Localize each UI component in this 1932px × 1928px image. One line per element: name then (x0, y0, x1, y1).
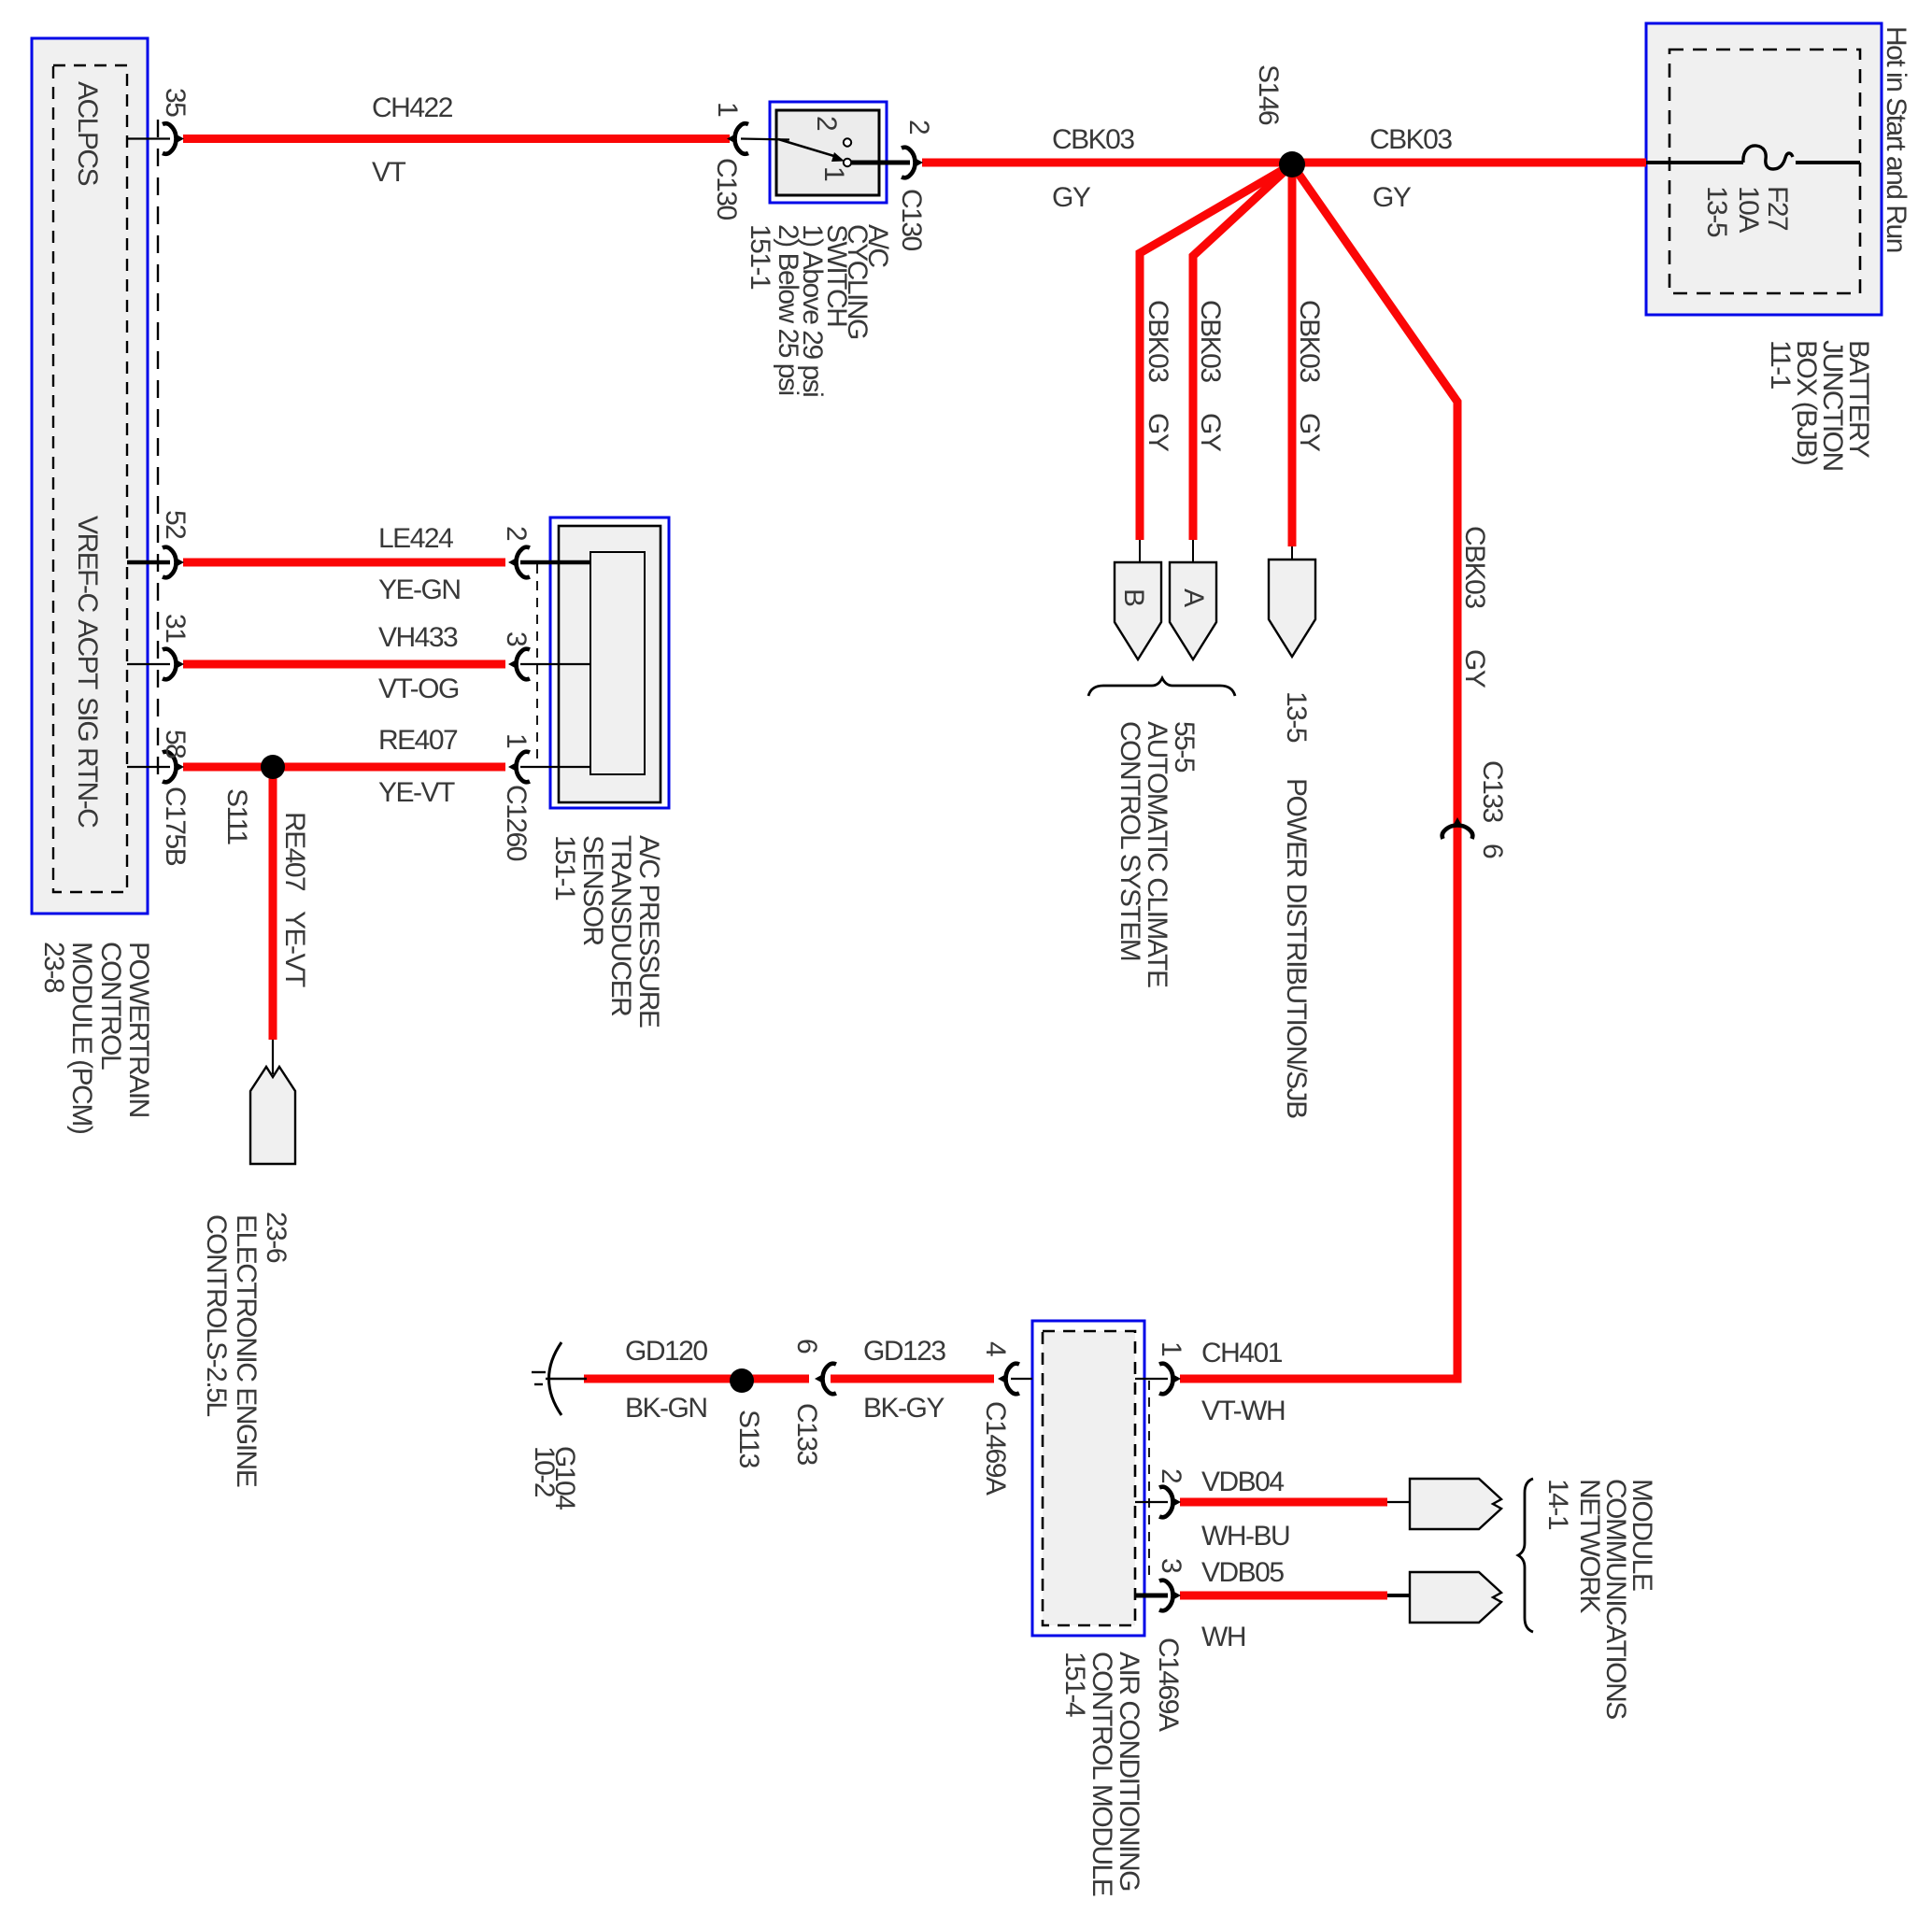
svg-text:YE-VT: YE-VT (279, 911, 310, 987)
svg-text:6: 6 (1477, 843, 1508, 858)
svg-text:VREF-C: VREF-C (72, 516, 103, 613)
svg-text:MODULE (PCM): MODULE (PCM) (66, 942, 97, 1134)
svg-text:C133: C133 (1477, 760, 1508, 823)
svg-text:CBK03: CBK03 (1143, 300, 1173, 382)
svg-text:CBK03: CBK03 (1195, 300, 1226, 382)
svg-text:23-6: 23-6 (261, 1212, 291, 1263)
svg-text:10A: 10A (1733, 186, 1764, 233)
svg-text:31: 31 (160, 614, 191, 643)
svg-text:2: 2 (501, 526, 532, 541)
svg-text:CONTROL SYSTEM: CONTROL SYSTEM (1115, 721, 1145, 960)
svg-text:151-1: 151-1 (745, 224, 775, 290)
svg-text:C175B: C175B (160, 787, 191, 866)
svg-text:BK-GN: BK-GN (625, 1393, 707, 1424)
svg-text:13-5: 13-5 (1281, 691, 1312, 743)
svg-text:CH422: CH422 (372, 92, 453, 123)
svg-text:3: 3 (1156, 1558, 1186, 1573)
svg-text:GY: GY (1372, 182, 1412, 213)
svg-text:CBK03: CBK03 (1370, 124, 1452, 155)
svg-text:LE424: LE424 (378, 523, 453, 554)
svg-text:C1260: C1260 (501, 785, 532, 861)
svg-text:B: B (1118, 588, 1149, 606)
svg-text:1: 1 (501, 733, 532, 748)
svg-text:GD120: GD120 (625, 1336, 707, 1367)
svg-text:Hot in Start and Run: Hot in Start and Run (1881, 26, 1911, 252)
svg-text:4: 4 (980, 1341, 1011, 1356)
svg-text:GY: GY (1459, 649, 1490, 688)
svg-text:CH401: CH401 (1201, 1338, 1283, 1368)
svg-text:RE407: RE407 (378, 725, 458, 756)
svg-text:3: 3 (501, 631, 532, 646)
svg-text:VT-OG: VT-OG (378, 673, 459, 704)
svg-text:YE-GN: YE-GN (378, 574, 461, 605)
svg-text:23-8: 23-8 (38, 942, 69, 993)
svg-text:WH-BU: WH-BU (1201, 1521, 1289, 1552)
svg-text:VDB05: VDB05 (1201, 1557, 1284, 1588)
svg-text:C1469A: C1469A (1153, 1637, 1184, 1732)
svg-text:GY: GY (1294, 413, 1325, 452)
svg-text:GD123: GD123 (863, 1336, 945, 1367)
svg-text:1: 1 (712, 102, 743, 117)
svg-text:NETWORK: NETWORK (1574, 1479, 1605, 1613)
svg-text:58: 58 (160, 730, 191, 758)
svg-text:RE407: RE407 (279, 812, 310, 891)
svg-text:C130: C130 (896, 189, 927, 251)
svg-text:SENSOR: SENSOR (577, 835, 608, 946)
svg-text:GY: GY (1052, 182, 1091, 213)
svg-text:F27: F27 (1762, 186, 1793, 231)
svg-text:6: 6 (791, 1339, 822, 1354)
svg-text:A: A (1178, 588, 1209, 607)
svg-text:2: 2 (903, 120, 934, 135)
svg-text:VT-WH: VT-WH (1201, 1396, 1285, 1426)
svg-text:S111: S111 (221, 788, 252, 844)
svg-text:YE-VT: YE-VT (378, 777, 455, 808)
svg-text:WH: WH (1201, 1622, 1245, 1652)
svg-text:C133: C133 (791, 1403, 822, 1466)
svg-text:151-1: 151-1 (549, 835, 580, 900)
svg-text:10-2: 10-2 (529, 1446, 560, 1497)
svg-text:11-1: 11-1 (1765, 340, 1796, 390)
svg-text:13-5: 13-5 (1701, 186, 1732, 237)
svg-text:VT: VT (372, 157, 406, 188)
svg-text:CBK03: CBK03 (1052, 124, 1134, 155)
svg-text:52: 52 (160, 510, 191, 539)
svg-text:CONTROLS-2.5L: CONTROLS-2.5L (201, 1214, 232, 1416)
svg-text:SIG RTN-C: SIG RTN-C (72, 697, 103, 828)
svg-text:2: 2 (811, 116, 842, 131)
svg-text:POWER DISTRIBUTION/SJB: POWER DISTRIBUTION/SJB (1281, 778, 1312, 1118)
svg-text:ACPT: ACPT (72, 619, 103, 689)
svg-text:1: 1 (818, 166, 849, 181)
svg-text:S146: S146 (1253, 64, 1284, 125)
svg-text:CBK03: CBK03 (1294, 300, 1325, 382)
svg-text:ACLPCS: ACLPCS (72, 81, 103, 186)
svg-text:151-4: 151-4 (1059, 1652, 1090, 1717)
svg-text:1: 1 (1156, 1341, 1186, 1356)
svg-text:35: 35 (160, 88, 191, 117)
svg-text:VH433: VH433 (378, 622, 458, 653)
svg-text:BK-GY: BK-GY (863, 1393, 945, 1424)
svg-text:C130: C130 (711, 158, 742, 220)
svg-text:2) Below 25 psi: 2) Below 25 psi (773, 224, 803, 395)
svg-text:TRANSDUCER: TRANSDUCER (605, 835, 636, 1016)
svg-text:VDB04: VDB04 (1201, 1467, 1284, 1497)
svg-text:2: 2 (1156, 1468, 1186, 1483)
svg-text:CBK03: CBK03 (1459, 526, 1490, 608)
svg-text:C1469A: C1469A (980, 1401, 1011, 1496)
svg-text:GY: GY (1143, 413, 1173, 452)
svg-text:14-1: 14-1 (1542, 1479, 1573, 1530)
svg-text:A/C PRESSURE: A/C PRESSURE (633, 835, 664, 1028)
svg-text:ELECTRONIC ENGINE: ELECTRONIC ENGINE (231, 1214, 262, 1487)
svg-text:GY: GY (1195, 413, 1226, 452)
svg-text:POWERTRAIN: POWERTRAIN (123, 942, 154, 1117)
svg-text:CONTROL: CONTROL (95, 942, 126, 1070)
svg-text:S113: S113 (733, 1410, 764, 1468)
